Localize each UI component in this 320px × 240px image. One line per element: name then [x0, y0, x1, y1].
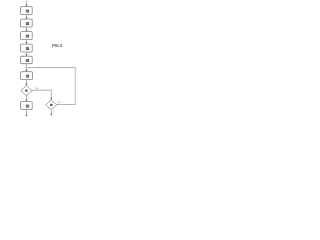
wire: box1-box2	[25, 15, 27, 19]
box S7	[21, 102, 33, 110]
background	[0, 0, 89, 120]
svg-text:no: no	[58, 100, 62, 104]
box S5	[21, 56, 33, 64]
svg-text:FIG.3: FIG.3	[52, 43, 63, 48]
svg-text:no: no	[35, 86, 39, 90]
wire: box7 exit arrow	[25, 110, 27, 116]
wire: D2 exit arrow down	[50, 110, 52, 114]
diamond D1	[21, 86, 32, 96]
wire: box4-box5	[25, 52, 27, 56]
wire: D1 right (NO) to D2 top	[32, 90, 51, 99]
wire: box5-box6 with feedback junction	[25, 64, 27, 72]
box S6	[21, 72, 33, 80]
wire: box3-box4	[25, 40, 27, 44]
diamond D2	[46, 100, 57, 110]
box S2	[21, 19, 33, 27]
wire: box2-box3	[25, 27, 27, 31]
box S3	[21, 32, 33, 40]
box S1	[21, 7, 33, 15]
wire: start arrow into box S1	[25, 1, 27, 7]
wire: feedback loop D2 right up to junction	[27, 68, 75, 105]
box S4	[21, 44, 33, 52]
wire: diamond D1 - box7 (YES branch)	[25, 96, 27, 101]
wire: box6-diamond D1	[25, 80, 27, 86]
